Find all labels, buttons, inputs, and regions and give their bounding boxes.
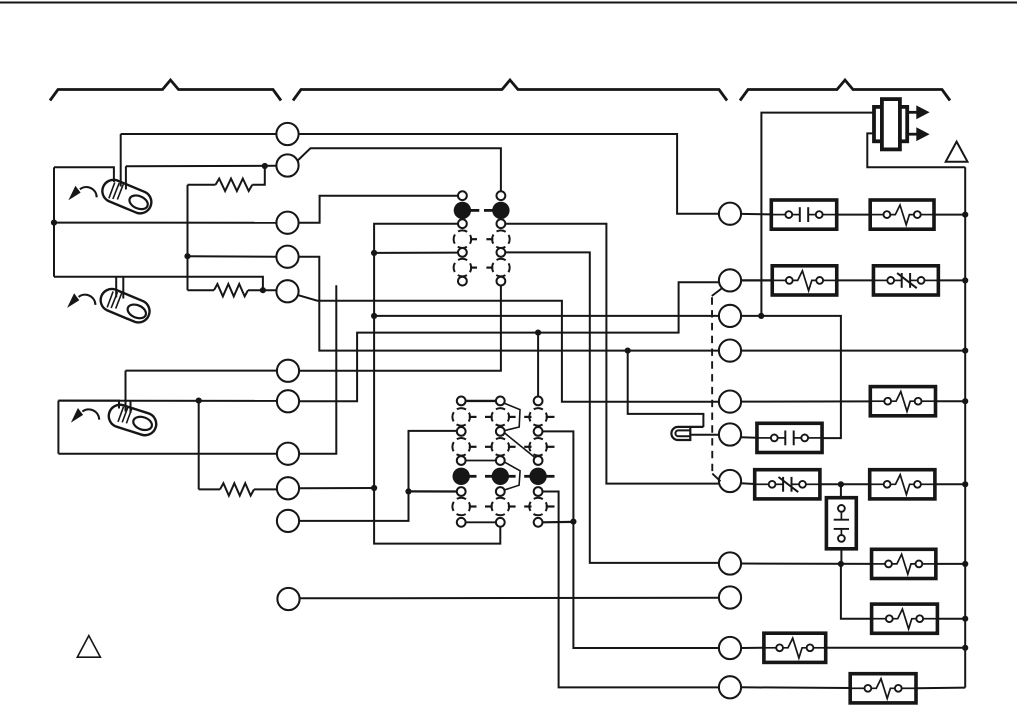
wire to sequencer B col1 contact xyxy=(409,490,458,492)
TH3 electrode lines xyxy=(118,407,124,422)
sequencer A col1 contact (open, dashed) xyxy=(454,259,472,277)
mercury thermostat TH1 bulb xyxy=(102,180,151,213)
sequencer B col3 contact (open, dashed) xyxy=(529,498,547,516)
sequencer B col3 contact (open, dashed) xyxy=(529,408,547,426)
TH1 lead 1 (to circle L1 wire) xyxy=(120,134,122,187)
wire L4 to terminal R4 row xyxy=(298,257,719,351)
bus dot row R10 xyxy=(962,645,968,651)
junction dot L9 xyxy=(371,485,377,491)
sequencer B col2 terminal 2 xyxy=(496,427,505,436)
sequencer A col1 terminal 2 xyxy=(458,219,467,228)
wire sequencer A col2 contact3 to R8 xyxy=(505,252,719,563)
junction dot R2 top xyxy=(184,253,190,259)
terminal circle L10 xyxy=(277,510,299,532)
wire R8 row xyxy=(741,563,872,565)
junction dot x374 upper xyxy=(371,250,377,256)
wire R3 to contact row R6 xyxy=(741,316,841,438)
limit contact box (row R2, NC) xyxy=(873,266,938,295)
wire L6 to sequencer A col2 bottom xyxy=(126,370,277,372)
sequencer B col2 terminal 4 xyxy=(496,487,505,496)
sequencer B col3 terminal 3 xyxy=(534,456,543,465)
junction dot L2/R1 resistor xyxy=(262,163,268,169)
bus dot row R1 xyxy=(962,212,968,218)
wire L5 to terminal R5 row xyxy=(298,295,719,402)
wire igniter to R6 xyxy=(690,434,719,436)
sequencer A col2 terminal 3 xyxy=(497,248,506,257)
wire L11 to R9 xyxy=(299,597,719,600)
terminal circle L7 xyxy=(277,390,299,412)
wire L1 feed xyxy=(121,133,277,135)
wire sequencer B col3 contact2 to R10 xyxy=(542,431,719,648)
bus dot row R4 xyxy=(962,348,968,354)
TH1 lead 2 (to circle L2 wire) xyxy=(125,166,127,189)
mercury thermostat TH2 bulb xyxy=(101,289,150,322)
resistor R2 leads xyxy=(188,289,215,291)
sequencer B col1 terminal 2 xyxy=(457,427,466,436)
wire TH3 box left vertical xyxy=(57,401,59,454)
wire L8 feed xyxy=(58,453,276,455)
overload element box (row R8) xyxy=(872,549,936,578)
terminal circle R7 xyxy=(719,470,741,492)
TH3 tilt arrow xyxy=(82,409,99,419)
terminal circle R9 xyxy=(719,586,741,608)
TH2 mercury blob xyxy=(126,302,149,321)
sequencer A col2 contact (open, dashed) xyxy=(492,259,510,277)
sequencer A col1 terminal 4 xyxy=(458,277,467,286)
overload element box (row R10) xyxy=(764,633,826,662)
wire L10 feed path xyxy=(299,431,457,521)
sequencer B col2-col3 diagonal xyxy=(505,433,535,458)
wire L2 feed xyxy=(126,165,277,167)
grouping brace 2 (control center section) xyxy=(293,80,727,101)
wire L2 to sequencer A col2 top xyxy=(298,148,501,191)
terminal circle R6 xyxy=(719,423,741,445)
quick-connect plug P1 center blade xyxy=(882,99,900,149)
switch gang dashed line xyxy=(711,297,713,473)
sequencer B col2 jumper 2 xyxy=(505,462,520,490)
wire sequencer A col2 contact2 to R7 xyxy=(505,224,719,484)
TH3 lead 1 (to circle L6 wire) xyxy=(125,371,127,412)
terminal circle R5 xyxy=(719,391,741,413)
resistor R2 body xyxy=(214,284,248,296)
contact box (row R7, NC) xyxy=(755,470,820,499)
wire resistor R3 feed vertical xyxy=(198,401,200,490)
wire capacitor box feed xyxy=(840,484,842,497)
sequencer B linkage (dashed row) xyxy=(469,505,477,507)
wire R11 row xyxy=(741,686,850,689)
sequencer A linkage (heater row) xyxy=(471,209,480,212)
wire plug input 1 xyxy=(761,113,874,316)
sequencer B col1 terminal 5 xyxy=(457,518,466,527)
junction dot col3 bottom xyxy=(570,519,576,525)
sequencer B col1 terminal 3 xyxy=(457,456,466,465)
junction dot sequencer B col3 feed xyxy=(535,330,541,336)
overload element box (row R2) xyxy=(772,266,837,295)
TH2 lead 1 xyxy=(115,277,117,298)
warning triangle (top right) xyxy=(946,142,968,162)
terminal circle L3 xyxy=(276,212,298,234)
terminal circle L6 xyxy=(277,360,299,382)
TH3 mercury blob xyxy=(132,415,154,433)
bus dot row R5 xyxy=(962,398,968,404)
grouping brace 1 (thermostat section) xyxy=(50,80,281,101)
wire L7 feed xyxy=(58,400,276,402)
resistor R3 leads xyxy=(199,488,220,490)
wire R1 row xyxy=(741,213,771,216)
sequencer B col1 contact (open, dashed) xyxy=(452,408,470,426)
sequencer B linkage (dashed row) xyxy=(469,446,477,448)
wire R6 to contact box xyxy=(741,436,757,438)
wire R2 row xyxy=(741,279,772,281)
wire TH2 row xyxy=(54,277,263,291)
wire sequencer B top row xyxy=(465,400,496,402)
overload element box (row R5) xyxy=(870,387,935,416)
right bus vertical xyxy=(964,167,966,687)
junction dot R3 / plug feed xyxy=(758,313,764,319)
resistor R3 body xyxy=(220,483,254,495)
wire sequencer B row3 xyxy=(465,460,496,462)
warning triangle (bottom left) xyxy=(77,636,100,658)
wire sequencer B col3 bottom to junction xyxy=(542,521,573,524)
TH1 electrode lines xyxy=(109,182,115,198)
terminal circle L11 xyxy=(277,588,299,610)
page top border line xyxy=(0,2,1017,4)
sequencer A col1 terminal 1 xyxy=(458,191,467,200)
quick-connect plug P1 outer shell xyxy=(874,107,907,141)
bus dot row R2 xyxy=(962,277,968,283)
TH1 tilt arrow xyxy=(80,187,97,197)
sequencer B col3 terminal 4 xyxy=(534,487,543,496)
terminal circle L4 xyxy=(276,246,298,268)
wire sequencer B col3 contact4 to R11 xyxy=(542,492,719,688)
sequencer B col1 contact (open, dashed) xyxy=(452,438,470,456)
junction dot resistor R3 tap xyxy=(196,398,202,404)
wire left vertical x187 xyxy=(187,185,189,290)
sequencer A col2 terminal 2 xyxy=(497,219,506,228)
junction dot row R8 xyxy=(838,561,844,567)
terminal circle R1 xyxy=(719,203,741,225)
TH3 lead 2 (to circle L7 wire) xyxy=(130,401,132,413)
sequencer B linkage (dashed row) xyxy=(469,416,477,418)
wire center vertical x374 xyxy=(374,224,500,544)
junction dot resistor R2 / L5 xyxy=(260,287,266,293)
terminal circle L2 xyxy=(276,154,298,176)
terminal circle R11 xyxy=(719,676,741,698)
wire sequencer B bottom row xyxy=(465,521,496,523)
mercury thermostat TH3 bulb xyxy=(109,405,156,435)
TH1 mercury blob xyxy=(127,193,150,212)
TH2 lead 2 xyxy=(122,277,124,299)
sequencer A col2 heater contact (closed) xyxy=(492,202,509,219)
terminal circle L9 xyxy=(277,477,299,499)
sequencer B col2 terminal 5 xyxy=(496,518,505,527)
sequencer A linkage (dashed row) xyxy=(470,238,477,240)
igniter element inner xyxy=(675,430,690,436)
sequencer B col2 contact (open, dashed) xyxy=(492,498,510,516)
wire R5 row xyxy=(741,400,870,402)
contact box (row R6, NO) xyxy=(757,423,822,452)
junction dot on left vertical xyxy=(51,220,57,226)
sequencer B col2 heater contact (closed) xyxy=(492,468,509,485)
sequencer B col3 contact (open, dashed) xyxy=(529,438,547,456)
sequencer B col3 heater contact (closed) xyxy=(529,468,546,485)
wire L1 to R1 terminal xyxy=(298,134,719,214)
terminal circle R4 xyxy=(719,340,741,362)
terminal circle L1 xyxy=(276,123,298,145)
resistor R1 leads xyxy=(188,184,216,186)
sequencer B col2 contact (open, dashed) xyxy=(492,438,510,456)
junction dot L10 branch xyxy=(405,488,411,494)
sequencer B linkage (heater row) xyxy=(469,475,477,478)
junction dot igniter tap xyxy=(625,348,631,354)
wire L3 to sequencer A col1 top xyxy=(298,196,458,223)
wire branch row xyxy=(841,564,872,619)
wire capacitor box to R8 row xyxy=(840,549,842,564)
junction dot x374 R3 feed xyxy=(371,313,377,319)
sequencer B col1 contact (open, dashed) xyxy=(452,498,470,516)
switch arm R7 xyxy=(712,474,720,482)
wire L7 to terminal R2 row xyxy=(299,282,719,401)
wire L9 to junction xyxy=(299,487,374,489)
overload element box (branch row) xyxy=(872,604,938,633)
wire TH3 box top xyxy=(58,401,119,409)
fan limit contact box (row R1, NO) xyxy=(771,200,836,229)
wire sequencer A col1 contact 3 feed xyxy=(374,252,458,254)
sequencer B col1 heater contact (closed) xyxy=(453,468,470,485)
bus dot branch row xyxy=(962,616,968,622)
sequencer B col3 terminal 1 xyxy=(534,397,543,406)
plug arrow 1 xyxy=(906,111,919,114)
overload element box (row R7) xyxy=(870,470,935,499)
wire terminal R3 feed xyxy=(374,315,719,317)
terminal circle R8 xyxy=(719,552,741,574)
wire L4 feed xyxy=(188,255,277,258)
terminal circle R10 xyxy=(719,637,741,659)
sequencer B col2 terminal 1 xyxy=(496,397,505,406)
sequencer B col1 terminal 4 xyxy=(457,487,466,496)
sequencer A linkage (dashed row) xyxy=(470,267,477,269)
grouping brace 3 (plug section) xyxy=(740,80,950,101)
wire L3 feed xyxy=(54,222,277,224)
capacitor box (humidifier) xyxy=(826,498,856,549)
sequencer A col2 contact (open, dashed) xyxy=(492,230,510,248)
sequencer B col3 terminal 2 xyxy=(534,427,543,436)
sequencer A col1 contact (open, dashed) xyxy=(454,230,472,248)
overload element box (row R1) xyxy=(870,200,934,229)
overload element box (row R11) xyxy=(850,674,916,703)
plug arrow 2 xyxy=(906,133,919,136)
terminal circle R3 xyxy=(719,305,741,327)
sequencer A col2 terminal 4 xyxy=(497,277,506,286)
terminal circle R2 xyxy=(719,269,741,291)
sequencer B col2 contact (open, dashed) xyxy=(492,408,510,426)
terminal circle L8 xyxy=(277,443,299,465)
wire R7 row xyxy=(741,482,755,485)
wire TH1 box top xyxy=(54,167,114,182)
wire TH1 box left vertical xyxy=(53,167,55,276)
bus dot row R7 xyxy=(962,481,968,487)
resistor R1 body xyxy=(216,179,253,191)
wire sequencer B col3 top feed xyxy=(537,333,539,397)
terminal circle L5 xyxy=(276,280,298,302)
igniter element outer xyxy=(671,427,703,440)
igniter feed wire xyxy=(628,351,704,427)
sequencer B col3 terminal 5 xyxy=(534,518,543,527)
TH2 tilt arrow xyxy=(79,295,96,305)
wire L8 to sequencer A col1 bottom xyxy=(299,285,336,453)
wire R10 row xyxy=(741,647,764,649)
TH2 electrode lines xyxy=(107,292,113,308)
sequencer B col2 jumper 1 xyxy=(504,403,520,430)
sequencer B col1 terminal 1 xyxy=(457,397,466,406)
wire R4 row to bus xyxy=(741,350,965,352)
bus dot row R8 xyxy=(962,561,968,567)
sequencer B col2 terminal 3 xyxy=(496,456,505,465)
sequencer A col1 terminal 3 xyxy=(458,248,467,257)
wire plug input 2 to bus xyxy=(867,133,965,167)
junction dot row R7 branch xyxy=(838,481,844,487)
sequencer A col1 heater contact (closed) xyxy=(454,202,471,219)
switch arm R2 xyxy=(712,288,723,296)
sequencer A col2 terminal 1 xyxy=(497,191,506,200)
